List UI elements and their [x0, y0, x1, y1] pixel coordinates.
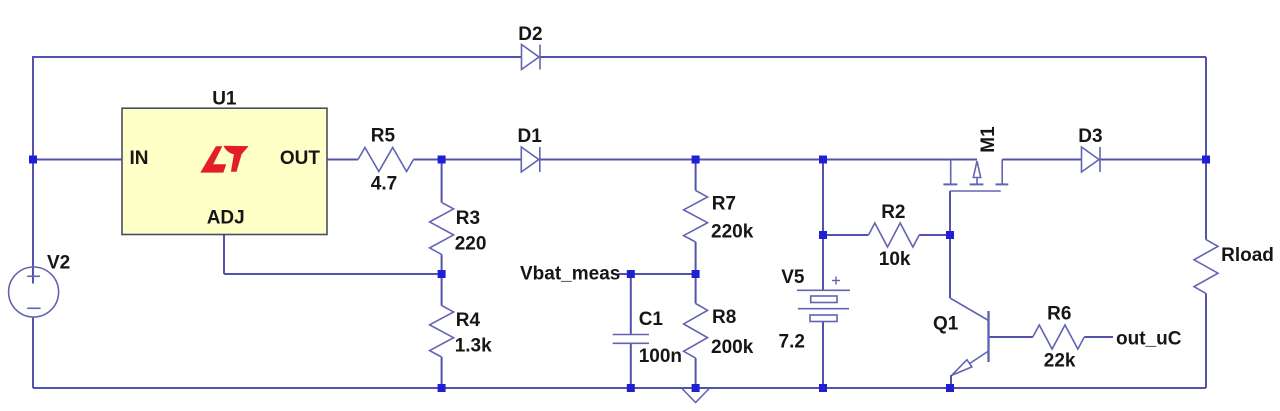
svg-text:D3: D3 [1078, 126, 1102, 147]
svg-text:C1: C1 [639, 309, 664, 330]
svg-text:OUT: OUT [280, 148, 321, 169]
svg-text:R7: R7 [712, 194, 736, 215]
svg-text:ADJ: ADJ [207, 208, 245, 229]
svg-text:4.7: 4.7 [371, 173, 397, 194]
svg-text:7.2: 7.2 [779, 331, 805, 352]
svg-text:Vbat_meas: Vbat_meas [520, 263, 620, 284]
svg-text:R8: R8 [712, 307, 736, 328]
svg-text:D1: D1 [518, 126, 543, 147]
svg-text:Q1: Q1 [933, 314, 959, 335]
svg-text:200k: 200k [711, 337, 754, 358]
svg-text:1.3k: 1.3k [455, 336, 492, 357]
svg-text:R3: R3 [456, 208, 480, 229]
svg-text:V2: V2 [47, 253, 70, 274]
svg-text:220: 220 [455, 234, 487, 255]
svg-text:R6: R6 [1047, 304, 1071, 325]
svg-text:R4: R4 [456, 310, 481, 331]
svg-text:10k: 10k [879, 249, 911, 270]
svg-text:22k: 22k [1044, 351, 1076, 372]
svg-text:V5: V5 [781, 267, 805, 288]
svg-text:100n: 100n [639, 346, 682, 367]
svg-text:IN: IN [130, 148, 149, 169]
svg-text:out_uC: out_uC [1116, 328, 1182, 349]
svg-text:Rload: Rload [1221, 245, 1274, 266]
svg-text:220k: 220k [711, 222, 754, 243]
svg-text:R2: R2 [881, 202, 905, 223]
svg-text:U1: U1 [212, 89, 237, 110]
svg-text:R5: R5 [371, 126, 396, 147]
svg-text:M1: M1 [978, 126, 999, 153]
svg-text:D2: D2 [518, 24, 542, 45]
